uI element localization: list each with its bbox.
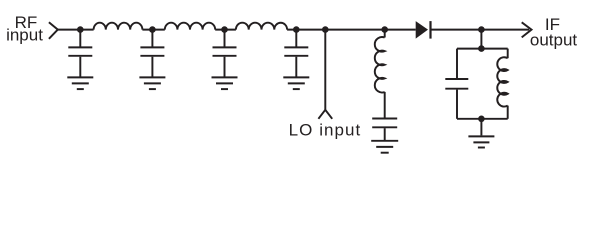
svg-text:output: output <box>530 31 578 50</box>
svg-text:input: input <box>6 26 43 45</box>
svg-text:LO input: LO input <box>289 121 362 140</box>
